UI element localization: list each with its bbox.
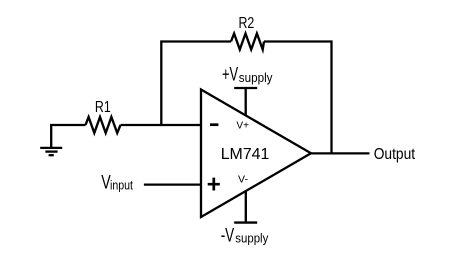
wire: Vinput to non-inverting input xyxy=(144,183,202,185)
ground xyxy=(40,148,62,155)
wire: R2 to output node (top right corner + right vertical) xyxy=(264,42,332,154)
wire: output xyxy=(311,152,370,154)
wire: feedback tap vertical + top horizontal to R2 xyxy=(161,42,231,127)
+Vsupply rail (bar + vertical pin) xyxy=(234,88,257,116)
inverting input marker (-) xyxy=(210,123,218,126)
svg-text:supply: supply xyxy=(235,231,268,246)
wire: R1 to inverting input xyxy=(121,124,202,126)
wire: ground stub to R1 left lead xyxy=(51,125,85,148)
-Vsupply rail (vertical pin + bar) xyxy=(234,191,257,223)
svg-text:+V: +V xyxy=(222,64,238,86)
resistor R1 xyxy=(86,117,121,133)
svg-text:R2: R2 xyxy=(239,15,255,32)
resistor R2 xyxy=(231,34,264,50)
svg-text:-V: -V xyxy=(221,225,235,247)
svg-text:input: input xyxy=(110,178,133,193)
svg-text:V+: V+ xyxy=(236,120,249,131)
svg-text:R1: R1 xyxy=(95,99,111,116)
svg-text:LM741: LM741 xyxy=(221,146,270,163)
svg-text:V-: V- xyxy=(238,175,248,186)
svg-text:supply: supply xyxy=(239,70,273,85)
svg-text:Output: Output xyxy=(374,146,416,163)
non-inverting input marker (+) xyxy=(208,178,220,191)
op-amp U1 LM741 triangle xyxy=(201,90,311,218)
